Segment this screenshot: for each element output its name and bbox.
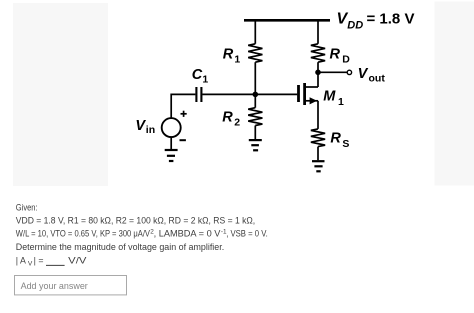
svg-text:M: M <box>323 89 336 105</box>
wire <box>317 147 319 161</box>
label Vout <box>358 66 386 85</box>
label M1 <box>323 89 344 108</box>
svg-text:C: C <box>192 67 203 83</box>
source Vin <box>162 111 187 141</box>
svg-text:R: R <box>330 130 341 146</box>
wire <box>202 93 297 95</box>
wire <box>317 19 319 44</box>
label R1 <box>223 47 241 66</box>
capacitor C1 <box>196 87 201 102</box>
svg-text:D: D <box>342 54 350 66</box>
transistor M1 <box>299 83 319 105</box>
wire <box>171 93 195 95</box>
answer input box <box>15 276 127 295</box>
svg-text:V: V <box>358 66 369 82</box>
wire <box>317 62 319 72</box>
question text <box>16 203 268 268</box>
svg-text:, VSB = 0 V.: , VSB = 0 V. <box>226 229 268 239</box>
svg-text:2: 2 <box>234 117 240 129</box>
label R2 <box>222 109 240 128</box>
terminal Vout <box>347 70 351 74</box>
resistor R1 <box>248 44 262 62</box>
svg-text:Given:: Given: <box>16 203 38 213</box>
label RD <box>330 47 351 66</box>
svg-text:, LAMBDA = 0 V: , LAMBDA = 0 V <box>154 229 221 239</box>
wire <box>318 71 347 73</box>
svg-text:Add your answer: Add your answer <box>21 281 88 291</box>
svg-text:in: in <box>146 124 155 136</box>
wire <box>170 137 172 150</box>
svg-text:R: R <box>330 47 341 63</box>
label Vin <box>135 118 155 136</box>
svg-text:V: V <box>28 261 33 268</box>
label VDD value <box>337 11 415 32</box>
resistor RS <box>311 129 325 147</box>
node gate <box>253 92 259 98</box>
svg-text:Determine the magnitude of vol: Determine the magnitude of voltage gain … <box>16 242 224 252</box>
answer blank line <box>46 264 65 266</box>
wire <box>254 126 256 140</box>
label C1 <box>192 67 209 85</box>
resistor R2 <box>248 108 262 126</box>
svg-text:1: 1 <box>234 54 240 66</box>
svg-text:| =: | = <box>34 256 44 266</box>
svg-text:R: R <box>222 109 233 125</box>
svg-text:= 1.8 V: = 1.8 V <box>367 11 415 28</box>
node drain <box>315 70 321 76</box>
resistor RD <box>311 44 325 62</box>
svg-text:R: R <box>223 47 234 63</box>
label RS <box>330 130 349 149</box>
svg-text:1: 1 <box>202 74 208 86</box>
wire <box>317 101 319 129</box>
svg-text:VDD = 1.8 V, R1 = 80 kΩ, R2 =: VDD = 1.8 V, R1 = 80 kΩ, R2 = 100 kΩ, RD… <box>16 216 255 226</box>
svg-text:DD: DD <box>347 19 363 31</box>
wire <box>317 72 319 87</box>
svg-text:1: 1 <box>338 96 344 108</box>
ground <box>312 161 325 171</box>
wire <box>254 19 256 44</box>
wire <box>254 62 256 94</box>
svg-text:S: S <box>342 138 349 150</box>
svg-text:| A: | A <box>16 256 26 266</box>
svg-text:V/V: V/V <box>68 256 86 266</box>
svg-text:V: V <box>135 118 146 134</box>
wire <box>170 94 172 119</box>
ground <box>249 140 262 150</box>
svg-text:out: out <box>369 73 386 85</box>
VDD rail <box>244 19 330 22</box>
ground <box>165 150 178 161</box>
svg-text:W/L = 10, VTO = 0.65 V, KP = 3: W/L = 10, VTO = 0.65 V, KP = 300 μA/V <box>16 229 150 239</box>
wire <box>254 94 256 107</box>
